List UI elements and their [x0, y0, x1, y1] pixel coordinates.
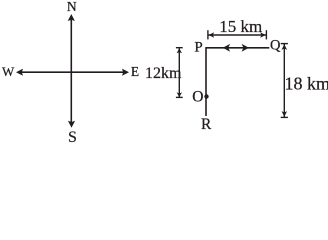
wire compass horizontal W-E line: [20, 71, 125, 73]
svg-text:15 km: 15 km: [219, 17, 262, 36]
node 15km left arrowhead: [209, 32, 215, 38]
node S arrowhead: [68, 121, 75, 128]
node 18km top tick: [281, 43, 288, 45]
svg-text:W: W: [2, 64, 15, 79]
node 12km bottom arrowhead: [177, 92, 182, 97]
svg-text:N: N: [67, 0, 77, 14]
node 12km top arrowhead: [177, 48, 182, 53]
node W arrowhead: [16, 69, 23, 76]
node 12km top tick: [176, 47, 183, 49]
wire 18km dimension line: [283, 44, 285, 117]
dimension 18 km: [281, 44, 288, 118]
wire path P to Q: [206, 47, 269, 49]
svg-text:E: E: [131, 64, 139, 79]
node left direction arrowhead on PQ: [223, 44, 230, 52]
svg-text:O: O: [192, 88, 203, 105]
dimension 12km: [176, 48, 183, 98]
svg-text:Q: Q: [270, 38, 281, 54]
node 18km bottom tick: [281, 116, 288, 118]
svg-text:R: R: [201, 116, 212, 133]
svg-text:S: S: [68, 129, 77, 143]
node 15km right arrowhead: [260, 32, 266, 38]
dimension 15 km: [208, 30, 267, 39]
node O junction dot: [204, 94, 208, 98]
node E arrowhead: [122, 69, 129, 76]
wire 12km dimension line: [178, 48, 180, 97]
wire compass vertical N-S line: [70, 18, 72, 123]
node 18km top arrowhead: [282, 44, 288, 50]
wire 15km dimension line: [208, 34, 266, 36]
node 12km bottom tick: [176, 96, 183, 98]
svg-text:P: P: [194, 40, 202, 56]
compass rose: [16, 14, 129, 128]
node right direction arrowhead on PQ: [242, 44, 249, 52]
wire path P to R: [205, 47, 207, 116]
node N arrowhead: [68, 14, 75, 21]
node 15km right tick: [265, 30, 267, 39]
svg-text:12km: 12km: [145, 65, 182, 82]
node 18km bottom arrowhead: [282, 111, 288, 117]
svg-text:18 km: 18 km: [285, 74, 328, 94]
node 15km left tick: [207, 30, 209, 39]
